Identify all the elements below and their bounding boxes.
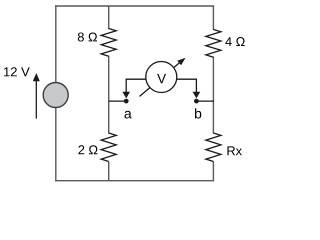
label b xyxy=(195,108,201,118)
label a xyxy=(124,111,131,119)
wire voltmeter right lead xyxy=(176,79,196,93)
resistor Rx xyxy=(206,133,221,162)
wire bridge left segment xyxy=(109,100,127,102)
voltmeter needle arrow head xyxy=(177,58,185,66)
voltmeter needle xyxy=(140,62,182,97)
voltmeter M1 circle xyxy=(146,62,177,93)
wire bottom rail xyxy=(55,180,214,182)
voltage source BT1 12 V xyxy=(43,83,68,108)
label Rx xyxy=(227,146,241,155)
wire middle rail top lead xyxy=(108,6,110,29)
node b dot xyxy=(194,99,199,104)
wire left rail xyxy=(55,5,57,181)
node a dot xyxy=(124,99,129,104)
resistor R2 4 ohm xyxy=(206,30,221,58)
wire right rail bottom lead xyxy=(212,162,214,181)
wire right rail top lead xyxy=(212,6,214,30)
label V xyxy=(157,74,166,83)
wire top rail xyxy=(55,5,214,7)
resistor R3 2 ohm xyxy=(101,133,116,162)
label 8 ohm xyxy=(78,32,97,41)
arrow into node a xyxy=(122,92,130,99)
label 2 ohm xyxy=(78,145,97,154)
resistor R1 8 ohm xyxy=(101,29,116,57)
wire middle rail mid segment xyxy=(108,56,110,134)
wire right rail mid segment xyxy=(212,57,214,134)
label 4 ohm xyxy=(225,37,244,46)
wire voltmeter left lead xyxy=(126,79,146,93)
wire middle rail bottom lead xyxy=(108,162,110,181)
arrow into node b xyxy=(193,92,201,99)
wire bridge right segment xyxy=(196,100,214,102)
current direction arrow line xyxy=(35,81,37,119)
current direction arrow head xyxy=(33,73,40,81)
label 12 V xyxy=(4,67,30,76)
